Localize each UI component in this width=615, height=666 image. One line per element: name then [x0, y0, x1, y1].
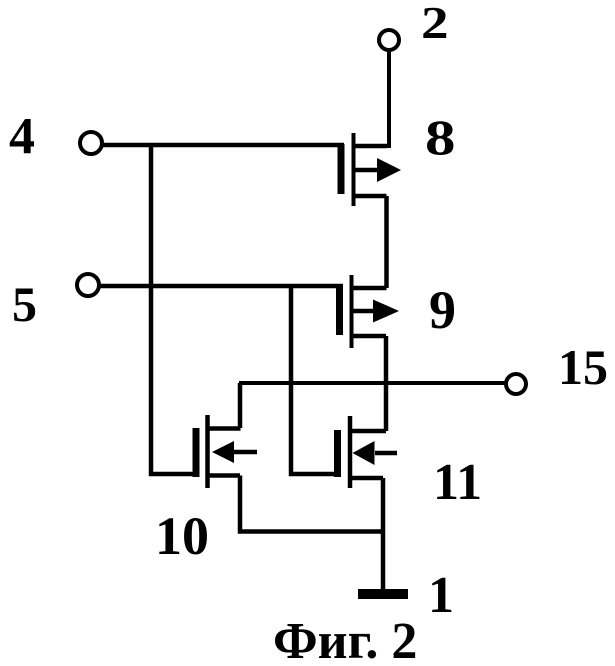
- wire node 15 to T10 drain: [238, 383, 243, 428]
- terminal 15: [506, 374, 526, 394]
- transistor T9: [340, 275, 400, 348]
- transistor T8: [341, 133, 401, 206]
- svg-text:1: 1: [428, 567, 454, 624]
- wire T11 source to ground: [381, 478, 386, 590]
- transistor T10: [196, 415, 257, 488]
- terminal 2: [379, 30, 399, 50]
- ground 1: [358, 589, 408, 599]
- wire node 5: [99, 284, 343, 289]
- svg-text:10: 10: [155, 506, 209, 566]
- svg-text:8: 8: [425, 110, 456, 166]
- svg-text:11: 11: [433, 454, 482, 511]
- wire node 5 branch to T11 gate: [291, 286, 337, 474]
- terminal 4: [80, 132, 102, 154]
- transistor T11: [338, 416, 398, 488]
- terminal 5: [77, 274, 99, 296]
- svg-text:Фиг. 2: Фиг. 2: [273, 613, 417, 666]
- wire node 15: [239, 381, 506, 385]
- svg-text:4: 4: [9, 108, 35, 165]
- wire terminal 2 to T8 drain: [387, 51, 391, 148]
- wire node 4: [102, 143, 344, 148]
- svg-text:5: 5: [12, 276, 37, 332]
- svg-text:15: 15: [558, 339, 608, 395]
- svg-text:9: 9: [429, 280, 456, 340]
- wire T8 source to T9 drain: [384, 196, 389, 288]
- wire T9 source to node 15 and T11 drain: [384, 336, 389, 431]
- wire T10 source to bottom rail: [240, 476, 383, 532]
- wire node 4 branch to T10 gate: [151, 145, 196, 474]
- svg-text:2: 2: [421, 0, 449, 48]
